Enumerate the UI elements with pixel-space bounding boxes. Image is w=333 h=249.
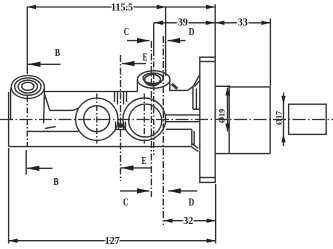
boss B1 ring3 xyxy=(18,80,37,93)
boss B1 hole xyxy=(22,82,34,90)
dim 127 arrow right xyxy=(207,239,216,243)
boss B2 left side xyxy=(136,80,138,91)
boss B1 ellipse outer xyxy=(11,76,44,99)
dim 33 arrow left xyxy=(215,21,224,25)
ext line 127 left xyxy=(8,148,10,244)
ext line 115.5 right xyxy=(165,7,167,76)
centerline xyxy=(0,119,333,121)
boss B2 hole xyxy=(145,74,161,85)
ext line 127/32 right xyxy=(215,184,217,244)
boss B2 right side xyxy=(169,80,171,90)
wire body top ledge xyxy=(44,91,138,93)
barrel outline xyxy=(215,86,270,153)
wire body left edge xyxy=(8,92,10,147)
clip between ports xyxy=(115,122,126,130)
dim 127 arrow left xyxy=(9,239,18,243)
dim 39 arrow right xyxy=(206,21,215,25)
step block before flange xyxy=(188,86,200,109)
svg-text:39: 39 xyxy=(178,18,188,29)
section line E xyxy=(120,55,122,181)
svg-text:D: D xyxy=(189,26,195,38)
svg-text:B: B xyxy=(55,47,61,59)
svg-text:E: E xyxy=(143,52,148,64)
dim bore Ø19 xyxy=(227,88,229,132)
svg-text:C: C xyxy=(124,26,129,38)
svg-text:D: D xyxy=(189,197,195,209)
dim 127 line xyxy=(9,240,216,242)
arrow D bottom xyxy=(168,190,197,192)
port circle P2 outer xyxy=(123,98,166,141)
arrow D top xyxy=(168,40,186,42)
arrow E top xyxy=(122,63,146,65)
neck lines to flange xyxy=(166,115,200,122)
boss B2 hole notch xyxy=(147,80,161,85)
dim Ø17 lines xyxy=(283,93,285,147)
lower ledge left xyxy=(27,127,79,132)
text 115.5 xyxy=(53,2,283,247)
svg-text:C: C xyxy=(123,197,128,209)
circle P2 centerline vertical xyxy=(143,94,145,144)
barrel seam xyxy=(228,85,230,153)
dim 32 arrow right xyxy=(207,219,216,223)
lower step block xyxy=(166,129,194,146)
circle P1 centerline vertical xyxy=(96,94,98,144)
valley stripes between ports xyxy=(115,92,127,105)
svg-text:115.5: 115.5 xyxy=(111,2,133,13)
flange top inner line xyxy=(200,61,215,63)
dim 115.5 arrow right xyxy=(206,5,215,9)
dim 32 arrow left xyxy=(164,219,173,223)
step ledge left xyxy=(50,108,79,111)
section line B top xyxy=(26,7,28,74)
end cylinder xyxy=(289,104,327,134)
port circle P1 inner xyxy=(84,106,110,132)
svg-text:B: B xyxy=(53,176,59,188)
wire body top ledge right of boss2 xyxy=(169,89,188,91)
svg-text:E: E xyxy=(142,155,147,167)
boss B1 ring2 xyxy=(15,78,41,95)
dim 39 line xyxy=(154,22,215,24)
dim 33 arrow right xyxy=(261,21,270,25)
svg-text:127: 127 xyxy=(105,236,120,247)
dim 33 line xyxy=(215,22,270,24)
arrow B top xyxy=(28,63,61,65)
svg-text:32: 32 xyxy=(183,216,193,227)
section line B through body xyxy=(26,96,28,146)
boss B1 right side xyxy=(43,88,46,123)
flange plate xyxy=(200,57,215,182)
boss B2 ellipse outer xyxy=(137,71,170,88)
boss B2 ring2 xyxy=(143,73,163,83)
port circle P2 inner xyxy=(129,104,162,137)
svg-text:33: 33 xyxy=(238,18,248,29)
arrow B bottom xyxy=(27,167,53,169)
dim 32 line xyxy=(164,220,216,222)
dim 115.5 line xyxy=(27,6,215,8)
dim 39 arrow left xyxy=(154,21,163,25)
arrow E bottom xyxy=(121,167,152,169)
section line C xyxy=(150,41,152,197)
dim 115.5 arrow left xyxy=(27,5,36,9)
gusset bottom at flange xyxy=(191,144,198,152)
section line B bottom xyxy=(25,150,27,175)
boss B1 left side xyxy=(10,88,12,120)
arrow C bottom xyxy=(120,190,150,192)
arrow C top xyxy=(127,40,150,42)
rib under boss B1 xyxy=(45,94,50,110)
svg-text:Ø17: Ø17 xyxy=(274,111,283,125)
section line D xyxy=(162,36,164,225)
rib right of boss B2 xyxy=(171,83,178,89)
gusset top at flange xyxy=(193,75,199,87)
svg-text:Ø19: Ø19 xyxy=(217,109,226,123)
port circle P1 outer xyxy=(76,98,118,140)
wire body bottom edge xyxy=(9,146,192,148)
ext line 33 right xyxy=(269,19,271,87)
ext line boss2 center xyxy=(153,23,155,50)
dim 115.5 arrow mid right xyxy=(157,5,166,9)
flange bottom inner line xyxy=(200,177,215,179)
ext line flange right top xyxy=(214,4,216,57)
